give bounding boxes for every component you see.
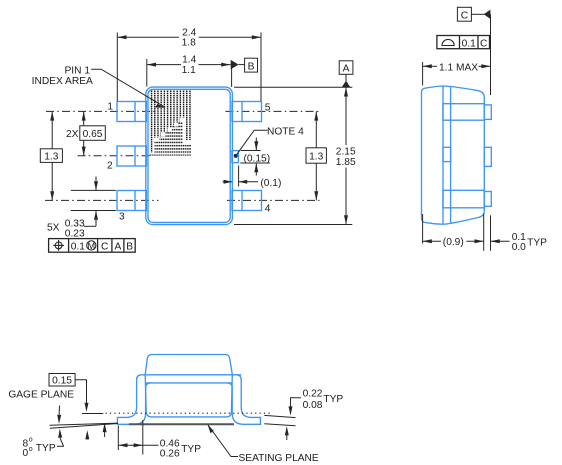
svg-text:C: C <box>101 242 108 253</box>
svg-text:(0.1): (0.1) <box>260 178 281 189</box>
svg-text:2: 2 <box>107 160 113 171</box>
svg-text:1.8: 1.8 <box>182 38 196 49</box>
svg-text:TYP: TYP <box>36 443 56 454</box>
svg-text:C: C <box>461 10 468 21</box>
svg-text:1.3: 1.3 <box>309 152 323 163</box>
svg-text:A: A <box>115 242 122 253</box>
svg-text:0.1: 0.1 <box>71 242 85 253</box>
svg-text:1.3: 1.3 <box>44 152 58 163</box>
svg-text:0.0: 0.0 <box>512 242 526 253</box>
svg-text:TYP: TYP <box>323 394 343 405</box>
svg-text:3: 3 <box>119 212 125 223</box>
svg-text:1.1 MAX: 1.1 MAX <box>439 62 478 73</box>
svg-text:0.26: 0.26 <box>160 448 180 459</box>
svg-text:2X: 2X <box>66 129 79 140</box>
svg-text:INDEX AREA: INDEX AREA <box>32 76 93 87</box>
svg-text:4: 4 <box>265 204 271 215</box>
svg-text:B: B <box>126 242 133 253</box>
svg-text:B: B <box>248 62 255 73</box>
svg-text:C: C <box>480 38 487 49</box>
svg-text:TYP: TYP <box>181 444 201 455</box>
svg-text:A: A <box>343 63 350 74</box>
svg-text:0.65: 0.65 <box>83 129 103 140</box>
svg-text:TYP: TYP <box>527 237 547 248</box>
svg-text:1: 1 <box>107 101 113 112</box>
svg-text:(0.9): (0.9) <box>443 237 464 248</box>
svg-text:NOTE 4: NOTE 4 <box>267 126 304 137</box>
svg-text:0.15: 0.15 <box>52 376 72 387</box>
svg-text:(0.15): (0.15) <box>244 153 271 164</box>
svg-text:SEATING PLANE: SEATING PLANE <box>239 453 319 464</box>
svg-text:1.85: 1.85 <box>336 157 356 168</box>
svg-text:o: o <box>29 436 33 443</box>
svg-text:5: 5 <box>265 102 271 113</box>
svg-text:0.08: 0.08 <box>303 400 323 411</box>
svg-text:0.22: 0.22 <box>303 389 323 400</box>
svg-text:0.1: 0.1 <box>462 38 476 49</box>
svg-text:GAGE PLANE: GAGE PLANE <box>8 390 74 401</box>
svg-text:o: o <box>29 446 33 453</box>
svg-text:M: M <box>87 241 95 251</box>
svg-text:1.1: 1.1 <box>182 65 196 76</box>
svg-text:5X: 5X <box>47 223 60 234</box>
svg-text:0: 0 <box>23 448 29 459</box>
